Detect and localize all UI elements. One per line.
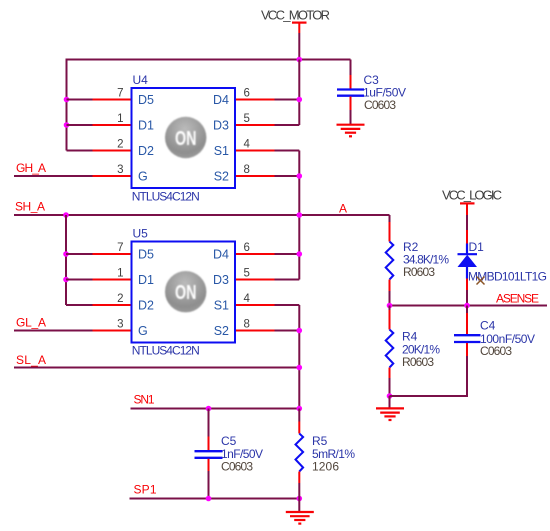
svg-text:R0603: R0603 [402,355,434,369]
wire SP1 [130,498,300,500]
wire R5 upper [298,409,300,422]
pin 1 U5 [93,279,132,281]
pin 7 U5 [93,253,132,255]
resistor R5 [296,422,356,484]
wire A down to R2 [389,215,391,222]
wire U5 pin6 [275,253,300,255]
wire C5 lower [208,471,210,499]
node junction pin1 [64,122,70,128]
wire U4 pin7 [67,99,93,101]
ON logo U5 [165,271,206,312]
node junction U5 pin8 [297,328,303,334]
node junction pin6 [297,97,303,103]
IC U5 body [132,242,236,343]
wire R5 lower [298,483,300,499]
svg-text:C4: C4 [480,319,496,333]
wire R4 upper [389,306,391,311]
svg-text:S2: S2 [214,169,229,183]
svg-text:G: G [138,324,148,338]
wire R4 lower [389,378,391,396]
wire U5 pin4 [275,304,300,306]
svg-text:D2: D2 [138,144,154,158]
node junction SL_A [297,365,303,371]
node junction SH_A main [297,212,303,218]
wire right vertical mid [298,151,300,280]
svg-text:SP1: SP1 [134,483,157,497]
wire C3 to ground [350,110,352,125]
wire VCC_MOTOR stem [298,33,300,60]
IC U4 body [132,88,236,188]
svg-text:D5: D5 [138,93,154,107]
pin 5 U5 [235,279,275,281]
svg-text:C0603: C0603 [480,344,512,358]
no-ERC marker [477,277,485,285]
svg-text:2: 2 [117,293,123,305]
node junction SP1 R5 [297,496,303,502]
ON logo U4 [165,117,206,158]
svg-text:1: 1 [117,113,123,125]
pin 2 U5 [93,304,132,306]
wire U4 pin4 [275,150,300,152]
wire SN1 [131,408,300,410]
pin 4 U5 [235,304,275,306]
pin 7 U4 [93,99,132,101]
wire top horizontal [67,59,351,61]
svg-text:3: 3 [117,318,123,330]
wire D1 lower [466,290,468,306]
node junction SH_A left [63,212,69,218]
wire U4 pin2 [67,150,93,152]
svg-text:1: 1 [117,267,123,279]
pin 1 U4 [93,124,132,126]
svg-text:D3: D3 [213,273,229,287]
svg-text:D1: D1 [469,240,485,254]
svg-text:D3: D3 [213,118,229,132]
svg-text:S1: S1 [214,144,229,158]
svg-text:3: 3 [117,164,123,176]
svg-text:6: 6 [244,87,250,99]
wire left vertical U4 [66,59,68,151]
wire C3 branch upper [350,60,352,76]
svg-text:D1: D1 [138,273,154,287]
svg-text:ASENSE: ASENSE [496,292,539,306]
wire U5 pin7 [66,253,93,255]
svg-text:A: A [339,202,347,216]
svg-text:8: 8 [244,318,250,330]
svg-text:8: 8 [244,164,250,176]
node junction ASENSE D1 [464,303,470,309]
resistor R4 [386,310,441,378]
node junction top [297,57,303,63]
svg-text:NTLUS4C12N: NTLUS4C12N [132,190,200,204]
wire R2 lower [389,291,391,306]
diode D1 [458,230,548,290]
svg-text:VCC_LOGIC: VCC_LOGIC [442,188,502,203]
wire left vertical U5 [65,215,67,305]
svg-text:U5: U5 [133,227,149,241]
wire U4 pin5 [275,124,300,126]
svg-text:GL_A: GL_A [16,316,46,330]
svg-text:S2: S2 [214,324,229,338]
svg-text:SN1: SN1 [134,393,155,407]
wire VCC_LOGIC stem [466,215,468,230]
wire C4 lower [466,356,468,397]
svg-text:C0603: C0603 [364,98,396,112]
pin 6 U5 [235,253,275,255]
power port VCC_MOTOR [261,8,330,34]
pin 6 U4 [235,99,275,101]
wire U4 pin6 [275,99,300,101]
svg-text:VCC_MOTOR: VCC_MOTOR [261,8,330,23]
capacitor C5 [195,434,264,471]
wire SH_A [14,214,390,216]
node junction ASENSE R2 [387,303,393,309]
node junction pin7 [64,97,70,103]
pin 3 U4 [93,175,132,177]
wire R5 ground stem [298,499,300,513]
svg-text:G: G [138,169,148,183]
svg-text:4: 4 [244,293,251,305]
pin 5 U4 [235,124,275,126]
ground C3 [337,125,365,137]
pin 4 U4 [235,150,275,152]
pin 2 U4 [93,150,132,152]
wire GL_A [14,330,93,332]
capacitor C3 [337,73,406,110]
svg-text:1206: 1206 [312,459,339,473]
wire U5 pin2 [66,304,93,306]
resistor R2 [386,222,450,291]
svg-text:R5: R5 [312,434,328,448]
svg-text:2: 2 [117,138,123,150]
node junction U5 pin6 [297,251,303,257]
pin 3 U5 [93,330,132,332]
wire GH_A [14,175,93,177]
ground R4 [376,408,404,420]
svg-text:SL_A: SL_A [16,353,46,367]
node junction SN1 main [297,406,303,412]
wire U4 pin1 [67,124,93,126]
node junction pin8 U4 [297,173,303,179]
svg-text:D5: D5 [138,247,154,261]
svg-text:ON: ON [175,281,197,304]
wire C4 upper [466,306,468,314]
power port VCC_LOGIC [442,188,502,216]
wire U5 pin5 [275,279,300,281]
svg-text:NTLUS4C12N: NTLUS4C12N [132,344,200,358]
svg-text:R4: R4 [402,330,418,344]
svg-text:5: 5 [244,267,250,279]
svg-text:7: 7 [117,242,123,254]
wire bottom R4 to C4 [390,395,468,397]
ground R5 [286,512,314,524]
node junction R4 C4 bottom [387,393,393,399]
wire U5 pin8 [275,330,300,332]
svg-text:SH_A: SH_A [15,200,45,214]
svg-text:C5: C5 [221,434,237,448]
svg-text:GH_A: GH_A [16,161,46,175]
node junction SN1 C5 [206,406,212,412]
wire C5 upper [208,409,210,437]
svg-text:5: 5 [244,113,250,125]
svg-text:4: 4 [244,138,251,150]
wire R4 ground stem [389,396,391,408]
wire SL_A [14,367,299,369]
node junction U5 pin1 [63,277,69,283]
svg-text:C0603: C0603 [221,459,253,473]
svg-text:D4: D4 [213,247,229,261]
svg-text:ON: ON [175,127,197,150]
capacitor C4 [454,313,535,357]
wire U5 pin1 [66,279,93,281]
svg-text:U4: U4 [133,73,149,87]
svg-text:D1: D1 [138,118,154,132]
wire U4 pin8 [275,175,300,177]
node junction SP1 C5 [206,496,212,502]
wire right vertical lower [298,305,300,409]
svg-text:D4: D4 [213,93,229,107]
pin 8 U5 [235,330,275,332]
svg-text:6: 6 [244,242,250,254]
node junction U5 pin7 [63,251,69,257]
svg-text:D2: D2 [138,298,154,312]
svg-text:7: 7 [117,87,123,99]
svg-text:R0603: R0603 [403,265,435,279]
wire ASENSE [390,305,548,307]
pin 8 U4 [235,175,275,177]
svg-text:S1: S1 [214,298,229,312]
wire right vertical upper [298,60,300,126]
